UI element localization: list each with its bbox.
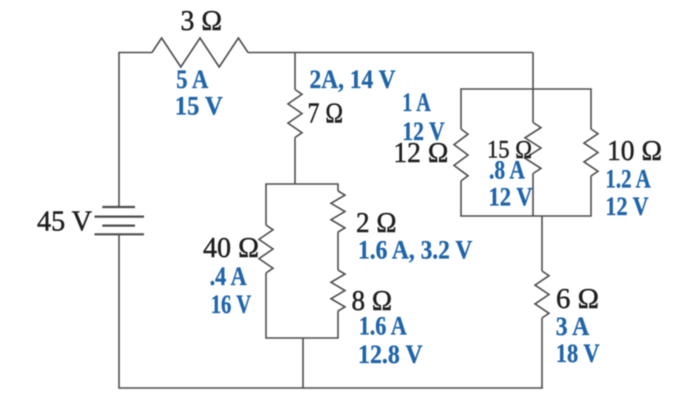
- svg-text:12 V: 12 V: [605, 192, 648, 221]
- svg-text:16 V: 16 V: [211, 290, 252, 319]
- svg-text:12 V: 12 V: [402, 117, 445, 146]
- svg-text:1.6 A, 3.2 V: 1.6 A, 3.2 V: [358, 236, 472, 265]
- svg-text:18 V: 18 V: [556, 339, 600, 368]
- svg-text:2A, 14 V: 2A, 14 V: [310, 65, 396, 94]
- svg-text:5 A: 5 A: [176, 65, 208, 94]
- svg-text:7 Ω: 7 Ω: [308, 99, 344, 130]
- svg-text:3 A: 3 A: [556, 312, 590, 341]
- svg-text:3 Ω: 3 Ω: [181, 6, 223, 37]
- svg-text:.8 A: .8 A: [489, 156, 525, 185]
- svg-text:1.6 A: 1.6 A: [359, 312, 407, 341]
- svg-text:12 V: 12 V: [489, 183, 533, 212]
- svg-text:12.8 V: 12.8 V: [358, 340, 423, 369]
- svg-text:10 Ω: 10 Ω: [607, 136, 662, 167]
- svg-text:.4 A: .4 A: [210, 262, 247, 291]
- svg-text:40 Ω: 40 Ω: [203, 233, 259, 264]
- svg-text:45 V: 45 V: [37, 207, 92, 238]
- svg-text:1 A: 1 A: [402, 88, 431, 117]
- svg-text:6 Ω: 6 Ω: [556, 284, 599, 315]
- svg-text:1.2 A: 1.2 A: [605, 165, 650, 194]
- svg-text:15 V: 15 V: [175, 92, 223, 121]
- svg-text:2 Ω: 2 Ω: [356, 208, 397, 239]
